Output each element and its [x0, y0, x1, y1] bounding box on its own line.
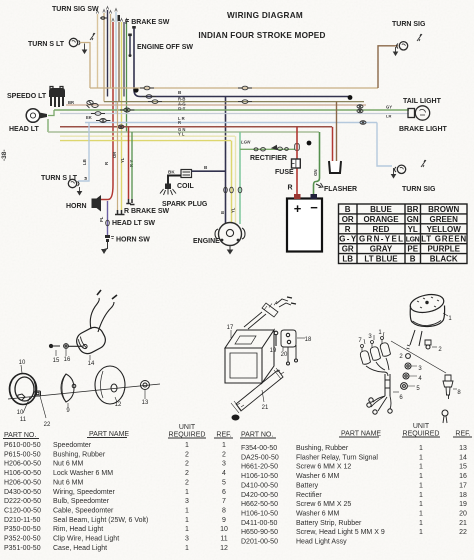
svg-text:PART NO.: PART NO.: [4, 432, 36, 439]
svg-text:SPARK PLUG: SPARK PLUG: [162, 201, 208, 208]
connector on olive bus left: [148, 100, 162, 104]
svg-text:HEAD LT: HEAD LT: [9, 126, 40, 133]
svg-text:Bushing, Rubber: Bushing, Rubber: [296, 445, 349, 452]
svg-text:REF.: REF.: [216, 432, 231, 439]
leader 18: [297, 337, 305, 339]
flasher cap: [329, 161, 341, 173]
spark plug item8: [445, 375, 451, 381]
connector darkred: [118, 125, 124, 129]
svg-text:B: B: [410, 255, 416, 264]
harness wires: [244, 312, 266, 329]
ground below engine: [229, 246, 231, 250]
svg-text:Bulb, Speedomter: Bulb, Speedomter: [53, 498, 110, 505]
connector lightblue mid: [96, 119, 110, 123]
rectifier diodes: [254, 144, 299, 152]
spark plug: [160, 184, 176, 196]
wire red horn feed: [101, 22, 113, 200]
svg-text:OR: OR: [342, 215, 354, 224]
battery box body: [225, 330, 274, 383]
svg-text:2: 2: [222, 451, 226, 458]
svg-text:Speedomter: Speedomter: [53, 442, 92, 449]
node dot right on B: [348, 95, 353, 100]
leader 16: [65, 349, 67, 356]
svg-text:GREEN: GREEN: [429, 215, 458, 224]
speedometer connector block: [49, 87, 65, 108]
svg-text:R: R: [345, 225, 351, 234]
washer chain: [406, 354, 411, 359]
svg-text:6: 6: [222, 489, 226, 496]
svg-text:YL: YL: [120, 157, 125, 163]
svg-text:PART NAME: PART NAME: [341, 431, 381, 438]
connector navy engine: [224, 187, 228, 193]
ground below horn sw: [104, 242, 108, 250]
svg-text:WIRING DIAGRAM: WIRING DIAGRAM: [227, 11, 303, 20]
wire tan from turn s lt: [80, 43, 90, 89]
svg-text:GR: GR: [342, 245, 354, 254]
leader 22: [40, 396, 46, 418]
svg-text:Rectifier: Rectifier: [296, 492, 322, 499]
svg-text:20: 20: [281, 352, 288, 358]
head light bulb: [26, 109, 47, 123]
svg-text:LR: LR: [386, 114, 391, 119]
svg-text:PART NAME: PART NAME: [89, 431, 129, 438]
ground below lower turn sig: [393, 168, 395, 174]
wire engine off switch navy: [134, 28, 140, 97]
hanging screws: [288, 345, 296, 362]
leader 2r: [432, 346, 437, 348]
svg-text:1: 1: [419, 445, 423, 452]
connector on tan y88: [238, 86, 252, 90]
svg-text:13: 13: [142, 400, 149, 406]
svg-text:3: 3: [222, 461, 226, 468]
svg-text:P610-00-50: P610-00-50: [4, 442, 41, 449]
svg-text:B: B: [345, 205, 351, 214]
connector on tanpink bus: [238, 100, 252, 104]
screw item19: [275, 334, 277, 346]
svg-text:TURN SIG: TURN SIG: [392, 21, 426, 28]
svg-text:YL: YL: [408, 225, 418, 234]
connector paleblue left: [91, 112, 105, 116]
svg-text:P350-00-50: P350-00-50: [4, 526, 41, 533]
svg-text:12: 12: [115, 402, 122, 408]
svg-text:LB: LB: [342, 255, 353, 264]
wire paleyellow into engine: [235, 136, 237, 223]
battery: [287, 194, 322, 252]
svg-text:10: 10: [220, 526, 228, 533]
connector purple: [106, 220, 110, 226]
svg-text:BR: BR: [68, 100, 74, 105]
head lt switch bars: [115, 210, 125, 215]
svg-text:LT BLUE: LT BLUE: [364, 255, 398, 264]
wire tan pale to turn-sig-sw: [97, 14, 99, 88]
svg-text:1: 1: [185, 526, 189, 533]
svg-text:BROWN: BROWN: [428, 205, 459, 214]
svg-text:Nut 6 MM: Nut 6 MM: [53, 479, 84, 486]
svg-text:D430-00-50: D430-00-50: [4, 489, 41, 496]
svg-text:14: 14: [88, 361, 95, 367]
svg-text:2: 2: [185, 470, 189, 477]
arrowheads at wire tops: [96, 7, 127, 22]
svg-text:REF.: REF.: [455, 431, 470, 438]
svg-text:YL: YL: [231, 207, 236, 213]
svg-text:GN: GN: [313, 169, 318, 176]
svg-text:D201-00-50: D201-00-50: [241, 539, 278, 546]
wire light-blue: [115, 12, 117, 114]
svg-text:REQUIRED: REQUIRED: [169, 432, 206, 439]
leader 10: [21, 365, 22, 373]
svg-text:12: 12: [220, 545, 228, 552]
wire bus tanpink y106.5: [66, 104, 366, 106]
svg-text:TURN SIG: TURN SIG: [402, 186, 436, 193]
svg-text:BRAKE LIGHT: BRAKE LIGHT: [399, 126, 448, 133]
speedometer item numbers: [358, 316, 461, 401]
svg-text:1: 1: [419, 501, 423, 508]
svg-text:18: 18: [305, 337, 312, 343]
bracket item18: [281, 330, 296, 347]
battery box item numbers: [227, 325, 312, 411]
bushing item13r: [141, 381, 150, 390]
svg-text:COIL: COIL: [177, 183, 194, 190]
svg-text:19: 19: [270, 348, 277, 354]
svg-text:9: 9: [222, 517, 226, 524]
svg-text:BLUE: BLUE: [370, 205, 392, 214]
svg-text:Nut 6 MM: Nut 6 MM: [53, 461, 84, 468]
svg-text:1: 1: [185, 489, 189, 496]
wire mint into engine: [239, 132, 241, 224]
leader 8: [453, 388, 457, 390]
svg-text:BK: BK: [168, 170, 175, 175]
leader 12: [115, 397, 117, 402]
harness top leaders: [364, 332, 384, 344]
wire tan2 to turn-sig-sw: [110, 14, 112, 88]
svg-text:RED: RED: [373, 225, 390, 234]
svg-text:P352-00-50: P352-00-50: [4, 536, 41, 543]
svg-text:17: 17: [459, 482, 467, 489]
wire green headlight upper: [48, 110, 54, 116]
svg-text:GY: GY: [386, 105, 392, 110]
strap item21: [236, 370, 283, 411]
svg-text:PE: PE: [407, 245, 418, 254]
svg-text:GN: GN: [407, 215, 419, 224]
svg-text:PART NO.: PART NO.: [241, 432, 273, 439]
svg-text:Cable, Speedomter: Cable, Speedomter: [53, 508, 114, 515]
svg-text:Rim, Head Light: Rim, Head Light: [53, 526, 103, 533]
tab item22: [35, 391, 41, 396]
rim item10: [10, 374, 37, 405]
svg-text:4: 4: [222, 470, 226, 477]
svg-text:G-Y: G-Y: [178, 106, 186, 111]
svg-text:LT GREEN: LT GREEN: [421, 235, 466, 244]
wire bus paleyellow y130.6: [60, 135, 235, 137]
svg-text:−: −: [310, 200, 318, 215]
svg-text:C120-00-50: C120-00-50: [4, 508, 41, 515]
svg-text:15: 15: [459, 464, 467, 471]
svg-text:Screw, Head Light 5 MM X 9: Screw, Head Light 5 MM X 9: [296, 529, 385, 536]
svg-text:+: +: [294, 201, 302, 216]
fraction mark 5/8: [90, 33, 95, 40]
wire green headlight lower: [47, 119, 49, 132]
svg-text:HORN SW: HORN SW: [116, 237, 150, 244]
wire tan to head lt sw: [117, 102, 119, 210]
connector yellow engine: [230, 187, 234, 193]
flasher connector arrow: [316, 183, 323, 188]
fraction mark lower turn sig: [421, 160, 426, 167]
svg-text:TURN S LT: TURN S LT: [41, 175, 78, 182]
nut item2 right: [425, 340, 431, 345]
svg-text:GRAY: GRAY: [370, 245, 393, 254]
svg-text:Bushing, Rubber: Bushing, Rubber: [53, 451, 106, 458]
lower terminal: [442, 410, 448, 416]
svg-text:Seal Beam, Light (25W, 6 Volt): Seal Beam, Light (25W, 6 Volt): [53, 517, 148, 524]
wire bus lightblue y122.5: [85, 122, 377, 124]
svg-text:Clip Wire, Head Light: Clip Wire, Head Light: [53, 536, 119, 543]
leader 20: [282, 347, 284, 351]
svg-text:14: 14: [459, 454, 467, 461]
svg-text:RECTIFIER: RECTIFIER: [250, 155, 287, 162]
svg-text:8: 8: [222, 508, 226, 515]
wire navy branch to coil line: [225, 97, 227, 172]
svg-text:-38-: -38-: [1, 149, 8, 161]
svg-text:2: 2: [185, 461, 189, 468]
svg-text:18: 18: [459, 492, 467, 499]
svg-text:HEAD LT SW: HEAD LT SW: [112, 220, 155, 227]
svg-text:D420-00-50: D420-00-50: [241, 492, 278, 499]
leader 21: [262, 390, 264, 402]
svg-text:H661-20-50: H661-20-50: [241, 464, 278, 471]
leader 6: [393, 391, 399, 393]
wire red to r brake sw: [128, 127, 130, 199]
svg-text:BR: BR: [407, 205, 419, 214]
wire lightblue to lower turn s lt: [78, 123, 89, 182]
fraction mark near turn sig: [417, 34, 422, 41]
wire yellow into engine: [231, 141, 233, 223]
wire navy2: [123, 22, 125, 97]
connector mint engine: [238, 187, 242, 193]
wire yellow head-lt-sw: [121, 22, 123, 210]
axis line: [8, 384, 160, 399]
svg-text:ORANGE: ORANGE: [363, 215, 399, 224]
svg-text:3: 3: [185, 498, 189, 505]
wire brown: [118, 22, 120, 102]
svg-text:H662-50-50: H662-50-50: [241, 501, 278, 508]
svg-text:H206-00-50: H206-00-50: [4, 461, 41, 468]
svg-text:H106-10-50: H106-10-50: [241, 473, 278, 480]
wire green flasher to battery minus: [314, 132, 320, 196]
svg-text:11: 11: [20, 417, 27, 423]
svg-text:OR: OR: [112, 152, 117, 158]
bulb turn sig lower right: [395, 165, 406, 173]
bulb turn sig top right: [397, 42, 408, 50]
leader 14: [89, 355, 91, 360]
svg-text:B: B: [220, 211, 225, 214]
ground below turn s lt lower: [79, 187, 81, 191]
svg-text:Head Light Assy: Head Light Assy: [296, 539, 347, 546]
svg-text:R: R: [178, 120, 181, 125]
svg-text:1: 1: [419, 511, 423, 518]
headlight item numbers: [17, 357, 149, 428]
head light case with wires: [73, 324, 108, 357]
studs: [410, 330, 422, 346]
wire bus olive y101.6: [104, 101, 364, 103]
svg-text:H206-00-50: H206-00-50: [4, 479, 41, 486]
leader 13: [144, 390, 146, 399]
wire green: [126, 22, 128, 132]
screw shaft to case: [69, 345, 83, 347]
tail brake bulb: [408, 106, 430, 120]
svg-text:Battery Strip, Rubber: Battery Strip, Rubber: [296, 520, 362, 527]
bulb turn s lt lower: [68, 179, 79, 187]
svg-text:Screw 6 MM X 25: Screw 6 MM X 25: [296, 501, 351, 508]
harness item6: [360, 351, 370, 364]
connector speedo wire: [87, 101, 99, 109]
svg-text:ENGINE: ENGINE: [193, 238, 220, 245]
svg-text:LGN: LGN: [406, 237, 420, 244]
wire bus darkred y127.2: [60, 126, 332, 128]
svg-text:R BRAKE SW: R BRAKE SW: [124, 208, 170, 215]
svg-text:BLACK: BLACK: [430, 255, 458, 264]
svg-text:INDIAN FOUR STROKE MOPED: INDIAN FOUR STROKE MOPED: [198, 31, 325, 40]
leader 11: [23, 397, 30, 413]
svg-text:F354-00-50: F354-00-50: [241, 445, 277, 452]
color code table grid: [339, 204, 468, 264]
svg-text:Washer 6 MM: Washer 6 MM: [296, 473, 339, 480]
connector tail 2: [357, 109, 363, 113]
connector on tan y88 left: [140, 86, 154, 90]
svg-text:LGN: LGN: [241, 140, 251, 145]
svg-text:H106-00-50: H106-00-50: [4, 470, 41, 477]
wire green rectifier line: [240, 148, 295, 150]
svg-text:D210-11-50: D210-11-50: [4, 517, 41, 524]
svg-text:22: 22: [459, 529, 467, 536]
horn switch: [105, 235, 114, 242]
wire bus yellow y137: [60, 140, 231, 142]
svg-text:UNIT: UNIT: [413, 423, 430, 430]
wire tan to turn-sig-sw: [103, 13, 105, 102]
svg-text:LB: LB: [82, 159, 87, 165]
svg-text:2: 2: [185, 451, 189, 458]
svg-text:FLASHER: FLASHER: [324, 186, 357, 193]
svg-text:PURPLE: PURPLE: [427, 245, 460, 254]
svg-text:1: 1: [419, 464, 423, 471]
leader 9: [67, 403, 69, 408]
svg-text:F BRAKE SW: F BRAKE SW: [125, 19, 170, 26]
svg-text:DA25-00-50: DA25-00-50: [241, 454, 279, 461]
svg-text:5: 5: [222, 479, 226, 486]
wire bus navy B y96.5: [140, 96, 350, 98]
svg-text:1: 1: [419, 454, 423, 461]
svg-text:15: 15: [53, 358, 60, 364]
svg-text:16: 16: [64, 357, 71, 363]
svg-text:UNIT: UNIT: [179, 424, 196, 431]
lens item9: [61, 374, 74, 402]
svg-text:Y L: Y L: [178, 131, 185, 136]
svg-text:1: 1: [419, 529, 423, 536]
svg-text:1: 1: [222, 442, 226, 449]
leader 15: [55, 350, 57, 356]
svg-text:P351-00-50: P351-00-50: [4, 545, 41, 552]
color table text: [339, 205, 466, 264]
r brake switch bars: [126, 199, 134, 205]
svg-text:D411-00-50: D411-00-50: [241, 520, 278, 527]
header underlines left: [3, 438, 233, 439]
svg-text:19: 19: [459, 501, 467, 508]
svg-text:20: 20: [459, 511, 467, 518]
wire brown riser to turn sig: [378, 46, 398, 88]
svg-text:PL: PL: [99, 216, 104, 222]
pointer line: [391, 341, 446, 373]
switch engine off stub: [129, 36, 131, 54]
fuse box: [292, 159, 301, 168]
svg-text:Flasher Relay, Turn Signal: Flasher Relay, Turn Signal: [296, 454, 378, 461]
wire lightblue riser to lower turn sig: [377, 123, 392, 167]
svg-text:13: 13: [459, 445, 467, 452]
connector yellow mid: [120, 108, 134, 112]
ground below turn s lt: [84, 44, 86, 50]
svg-text:H106-10-50: H106-10-50: [241, 511, 278, 518]
wire bus sage y132.8: [48, 131, 319, 133]
svg-text:TAIL LIGHT: TAIL LIGHT: [403, 98, 442, 105]
bulb turn signal lamp top-left: [69, 38, 80, 46]
svg-text:10: 10: [17, 410, 24, 416]
case wires: [90, 298, 114, 332]
svg-text:EK: EK: [86, 115, 92, 120]
junction dot: [133, 87, 138, 92]
svg-text:1: 1: [185, 545, 189, 552]
engine: [215, 223, 245, 246]
svg-text:11: 11: [220, 536, 227, 543]
reflector item12: [95, 366, 125, 404]
svg-text:G-Y: G-Y: [339, 235, 357, 244]
coil box: [181, 170, 192, 178]
wire navy coil to engine: [192, 170, 226, 172]
leaders washers: [408, 366, 417, 386]
svg-text:10: 10: [19, 360, 26, 366]
svg-text:Wiring, Speedomter: Wiring, Speedomter: [53, 489, 116, 496]
leader 17: [230, 330, 232, 338]
wire black coil stub: [168, 176, 181, 184]
svg-text:YELLOW: YELLOW: [427, 225, 462, 234]
svg-text:R: R: [288, 185, 293, 192]
header underlines right: [240, 437, 472, 438]
left table rows: [4, 442, 228, 552]
svg-text:D222-00-50: D222-00-50: [4, 498, 41, 505]
svg-text:ENGINE OFF SW: ENGINE OFF SW: [137, 44, 193, 51]
svg-text:FUSE: FUSE: [275, 169, 294, 176]
svg-text:GRN-YEL: GRN-YEL: [359, 235, 403, 244]
svg-text:17: 17: [227, 325, 234, 331]
svg-text:SPEEDO LT: SPEEDO LT: [7, 93, 47, 100]
svg-text:1: 1: [419, 473, 423, 480]
svg-text:22: 22: [44, 422, 51, 428]
speedometer body: [409, 292, 446, 315]
svg-text:1: 1: [185, 517, 189, 524]
connector F brake sw: [100, 17, 107, 19]
wire purple horn switch: [107, 201, 109, 235]
svg-text:Battery: Battery: [296, 482, 319, 489]
svg-text:Screw 6 MM X 12: Screw 6 MM X 12: [296, 464, 351, 471]
screw item15: [52, 345, 60, 349]
wire red to flasher: [332, 127, 334, 164]
horn speaker: [92, 195, 102, 212]
wire bus paleblue y114.5: [60, 113, 409, 115]
wire navy to turn-sig-sw: [107, 10, 109, 97]
svg-text:21: 21: [262, 405, 269, 411]
svg-text:7: 7: [222, 498, 226, 505]
svg-text:21: 21: [459, 520, 467, 527]
svg-text:TURN S LT: TURN S LT: [28, 41, 65, 48]
svg-text:D410-00-50: D410-00-50: [241, 482, 278, 489]
svg-text:2: 2: [185, 479, 189, 486]
